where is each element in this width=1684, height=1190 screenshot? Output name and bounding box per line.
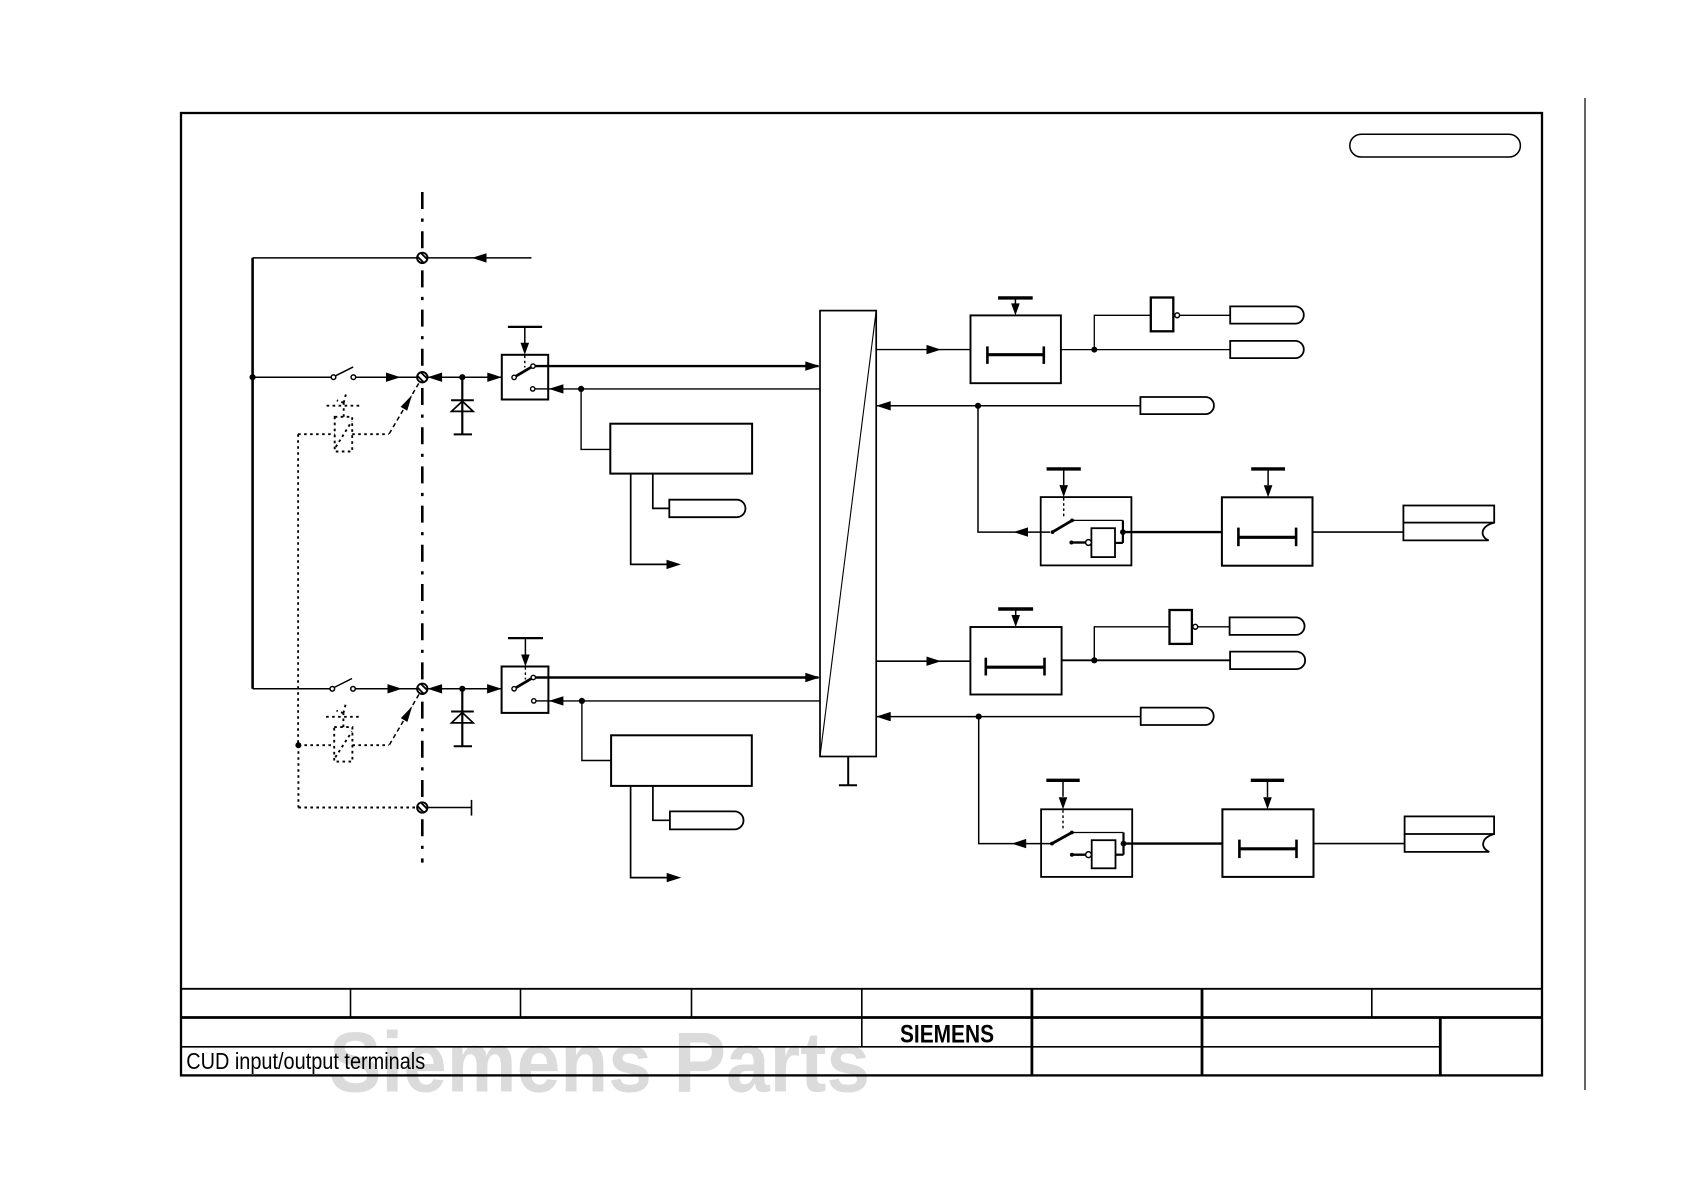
connector capsule D2 [670, 811, 744, 829]
link M2 vertical [1122, 833, 1124, 855]
NOT gate N1 bubble [1175, 313, 1180, 318]
parameter stem A [524, 328, 526, 345]
wire row A left [253, 376, 332, 378]
arrow toward terminal X2 [386, 373, 401, 382]
limiter L3 I-beam bar [986, 666, 1045, 669]
NOT gate N2 bubble [1193, 624, 1198, 629]
parameter bar L4 [1251, 779, 1284, 782]
select box M2 [1041, 780, 1132, 877]
title block row1 divider c [691, 989, 693, 1018]
ADC ground stem [847, 757, 849, 786]
limiter box L4 [1222, 780, 1313, 877]
drop wire to box D1 [581, 389, 610, 450]
limiter L3 tick right [1043, 658, 1046, 676]
link M2 short [1116, 854, 1124, 856]
mechanical link K1 arrow [401, 393, 416, 411]
wire M1 to limiter L2 [1123, 531, 1222, 533]
arrow toward terminal X3 [388, 684, 403, 693]
limiter L2 tick left [1237, 528, 1240, 547]
arrow into switch box A [487, 373, 502, 382]
box D1 stub to connector [653, 474, 670, 509]
title block divider h thick [1439, 1018, 1442, 1076]
wire L4 to page connector [1314, 843, 1405, 845]
parameter stem M2 [1062, 782, 1064, 797]
arrow into box B return [549, 696, 564, 705]
actuation dashed M2 [1062, 810, 1064, 830]
box D2 output arrow [667, 873, 682, 882]
wire L1 to connectors [1061, 349, 1230, 351]
parameter bar L1 [998, 296, 1033, 299]
relay K1 wire left [298, 433, 335, 435]
relay K2 wire right [352, 744, 389, 746]
parameter arrow L4 [1263, 797, 1272, 809]
return wire ADC to box A [549, 388, 820, 390]
parameter arrow B [521, 655, 530, 667]
title block row1 divider g [1371, 989, 1373, 1018]
connector capsule T2 [1230, 341, 1304, 358]
SECTION-LEFT [253, 258, 532, 689]
svg-text:CUD input/output terminals: CUD input/output terminals [186, 1048, 425, 1074]
parameter arrow L2 [1264, 485, 1273, 497]
box D2 stub to connector [653, 786, 670, 820]
limiter box L3 [970, 609, 1061, 695]
wire M2 to limiter L4 [1124, 842, 1223, 844]
relay K2 dotted [298, 704, 416, 807]
parameter stem L4 [1267, 782, 1269, 797]
switch S1 contact b [351, 375, 356, 380]
dotted bus down [297, 434, 299, 745]
inner block M2 [1092, 840, 1116, 868]
box B common contact [512, 687, 516, 691]
parameter bar M2 [1046, 779, 1079, 782]
parameter bar L2 [1251, 467, 1285, 470]
title block row1 bottom thick line [181, 1016, 1542, 1019]
parameter arrow M2 [1059, 797, 1068, 809]
terminal rail dash-dot line [421, 192, 424, 863]
limiter L4 tick right [1295, 840, 1298, 859]
parameter stem L1 [1014, 300, 1016, 305]
drawing frame border [181, 113, 1542, 1075]
mechanical link K1 dashed [389, 383, 419, 434]
title block row2 bottom line [181, 1046, 1440, 1048]
junction L3 out [1091, 657, 1097, 663]
link M1 top [1072, 519, 1123, 521]
blade M1 [1053, 520, 1073, 532]
parameter arrow A [521, 343, 530, 355]
limiter L1 tick left [986, 346, 989, 364]
switch S2 blade [334, 679, 352, 688]
junction return bottom [976, 714, 982, 720]
inner block M2 bubble [1086, 852, 1092, 858]
junction L1 out [1091, 347, 1097, 353]
arrow into terminal X1 [472, 253, 487, 262]
relay K1 dotted [298, 394, 389, 745]
link M1 vertical [1122, 520, 1124, 543]
arrow toward riser M1 [1014, 527, 1029, 536]
inner block M1 lead [1071, 541, 1085, 543]
actuation dashed B [524, 667, 526, 679]
relay blade A [516, 367, 531, 376]
junction return B [579, 698, 585, 704]
inner block M1 lead dot [1069, 541, 1073, 545]
switch S1 blade [335, 367, 353, 376]
blade M1 end dot [1070, 519, 1074, 523]
stub end tick [471, 800, 473, 816]
dotted drop to terminal X4 [297, 745, 299, 807]
link M1 short [1115, 542, 1123, 544]
mechanical link K2 dashed [389, 694, 419, 745]
limiter L4 I-beam bar [1239, 847, 1296, 850]
arrow out of terminal X2 [428, 373, 443, 382]
NOT gate N2 [1170, 610, 1192, 644]
empty legend stadium top right [1350, 134, 1521, 157]
limiter L4 tick left [1238, 840, 1241, 859]
wire row B left [253, 688, 330, 690]
junction dotted bus [295, 742, 301, 748]
arrow into ADC top input [805, 361, 820, 370]
wire L2 to page connector [1313, 531, 1404, 533]
parameter stem B [524, 639, 526, 656]
box A common contact [512, 375, 516, 379]
parameter arrow L1 [1011, 303, 1020, 315]
suppressor diode V1 [451, 377, 474, 434]
switch box B [502, 638, 549, 713]
link M2 top [1072, 832, 1124, 834]
arrow into ADC bottom input [805, 673, 820, 682]
parameter arrow L3 [1011, 615, 1020, 627]
ground bar [839, 784, 857, 786]
wire top feed [253, 257, 532, 259]
box B lower contact [532, 699, 536, 703]
junction return A [578, 386, 584, 392]
wire L3 to connectors [1062, 659, 1231, 661]
wire N1 to connector [1180, 314, 1231, 316]
parameter arrow M1 [1059, 485, 1068, 497]
function box D2 [611, 735, 752, 786]
relay K2 wire left [298, 744, 334, 746]
arrow into box A return [549, 384, 564, 393]
riser to NOT gate N2 [1094, 627, 1169, 661]
parameter stem L2 [1267, 471, 1269, 486]
title block divider e thick [1031, 989, 1034, 1076]
function box D1 [610, 424, 752, 474]
connector capsule T4 [1230, 617, 1305, 635]
parameter bar B [508, 637, 543, 639]
limiter L2 I-beam bar [1238, 536, 1296, 539]
parameter bar M1 [1047, 467, 1081, 470]
arrow toward riser M2 [1012, 839, 1026, 848]
connector capsule T5 [1230, 652, 1305, 670]
return wire into ADC top [876, 405, 1140, 407]
svg-text:SIEMENS: SIEMENS [900, 1020, 994, 1048]
drop wire to box D2 [582, 701, 611, 761]
actuation dashed M1 [1063, 498, 1065, 518]
ADC converter block U1 [820, 311, 876, 757]
wire row B mid [355, 688, 417, 690]
inner block M1 bubble [1086, 540, 1092, 546]
limiter box L1 [971, 298, 1061, 383]
limiter L1 tick right [1043, 346, 1046, 364]
box D2 stub to output arrow [631, 786, 672, 878]
wire N2 to connector [1198, 626, 1230, 628]
connector capsule T1 [1230, 306, 1304, 323]
inner block M2 lead [1072, 854, 1086, 856]
terminal X4 [415, 800, 429, 814]
box B lower contact stub [536, 700, 548, 702]
ADC diagonal [820, 311, 876, 757]
junction diode B node [459, 686, 465, 692]
wire ADC out top [876, 349, 970, 351]
thick wire box A to ADC [535, 365, 818, 367]
relay blade B [516, 679, 531, 688]
switch S2 contact a [330, 687, 335, 692]
wire row A right [427, 376, 501, 378]
thick wire box B to ADC [536, 676, 819, 678]
parameter stem M1 [1063, 471, 1065, 486]
switch box A [502, 327, 548, 400]
switch S1 contact a [331, 375, 336, 380]
terminal X2 [415, 370, 429, 384]
box A lower contact [531, 387, 535, 391]
relay K1 wire right [352, 433, 389, 435]
arrow out of terminal X3 [428, 684, 443, 693]
blade M2 pivot dot [1050, 842, 1054, 846]
terminal X3 [415, 682, 429, 696]
junction M1 out [1120, 529, 1126, 535]
box D1 output arrow [667, 560, 682, 569]
limiter L2 tick right [1295, 528, 1298, 547]
mechanical link K2 arrow [401, 704, 416, 722]
blade M2 end dot [1070, 831, 1074, 835]
title block top line [181, 988, 1542, 990]
title block row1 divider b [520, 989, 522, 1018]
title block row1 divider a [350, 989, 352, 1018]
parameter bar A [508, 326, 542, 328]
junction M2 out [1121, 841, 1127, 847]
arrow ADC out bottom [927, 657, 942, 666]
bus wire left vertical [251, 258, 254, 689]
switch S2 contact b [351, 687, 356, 692]
arrow into ADC right top [876, 401, 891, 410]
select box M1 [1041, 469, 1132, 566]
title block divider f thick [1201, 989, 1204, 1076]
blade M1 pivot dot [1051, 530, 1055, 534]
connector capsule T3 [1140, 397, 1214, 414]
drop wire to select box M2 [979, 717, 1051, 844]
parameter bar L3 [998, 607, 1033, 610]
wire ADC out bottom [876, 660, 970, 662]
inner block M2 lead dot [1070, 853, 1074, 857]
box A lower contact stub [535, 388, 548, 390]
limiter L3 tick left [984, 658, 987, 676]
box B upper contact [531, 675, 535, 679]
stub wire terminal X4 [428, 807, 471, 809]
limiter box L2 [1222, 469, 1313, 566]
wire row B right [427, 688, 501, 690]
wire row A mid [356, 376, 418, 378]
box A upper contact [531, 364, 535, 368]
return wire ADC to box B [549, 700, 820, 702]
inner block M1 [1091, 528, 1115, 557]
terminal X1 [415, 251, 429, 265]
suppressor diode V2 [451, 689, 474, 747]
parameter stem L3 [1015, 611, 1017, 616]
drop wire to select box M1 [978, 406, 1050, 532]
page connector P1 [1403, 506, 1494, 541]
connector capsule T6 [1141, 708, 1214, 725]
NOT gate N1 [1151, 298, 1174, 332]
riser to NOT gate N1 [1094, 315, 1151, 349]
box D1 stub to output arrow [631, 474, 672, 565]
junction diode A node [459, 374, 465, 380]
limiter L1 I-beam bar [987, 353, 1043, 356]
title block divider d [861, 989, 863, 1047]
arrow into ADC right bottom [876, 712, 891, 721]
arrow ADC out top [927, 345, 942, 354]
junction return top [975, 403, 981, 409]
return wire into ADC bottom [876, 716, 1140, 718]
sheet edge line right [1584, 98, 1586, 1090]
connector capsule D1 [669, 500, 745, 518]
arrow into switch box B [487, 684, 502, 693]
page connector P2 [1405, 816, 1495, 852]
actuation dashed A [524, 356, 526, 368]
junction bus row A [250, 374, 256, 380]
blade M2 [1052, 833, 1072, 844]
